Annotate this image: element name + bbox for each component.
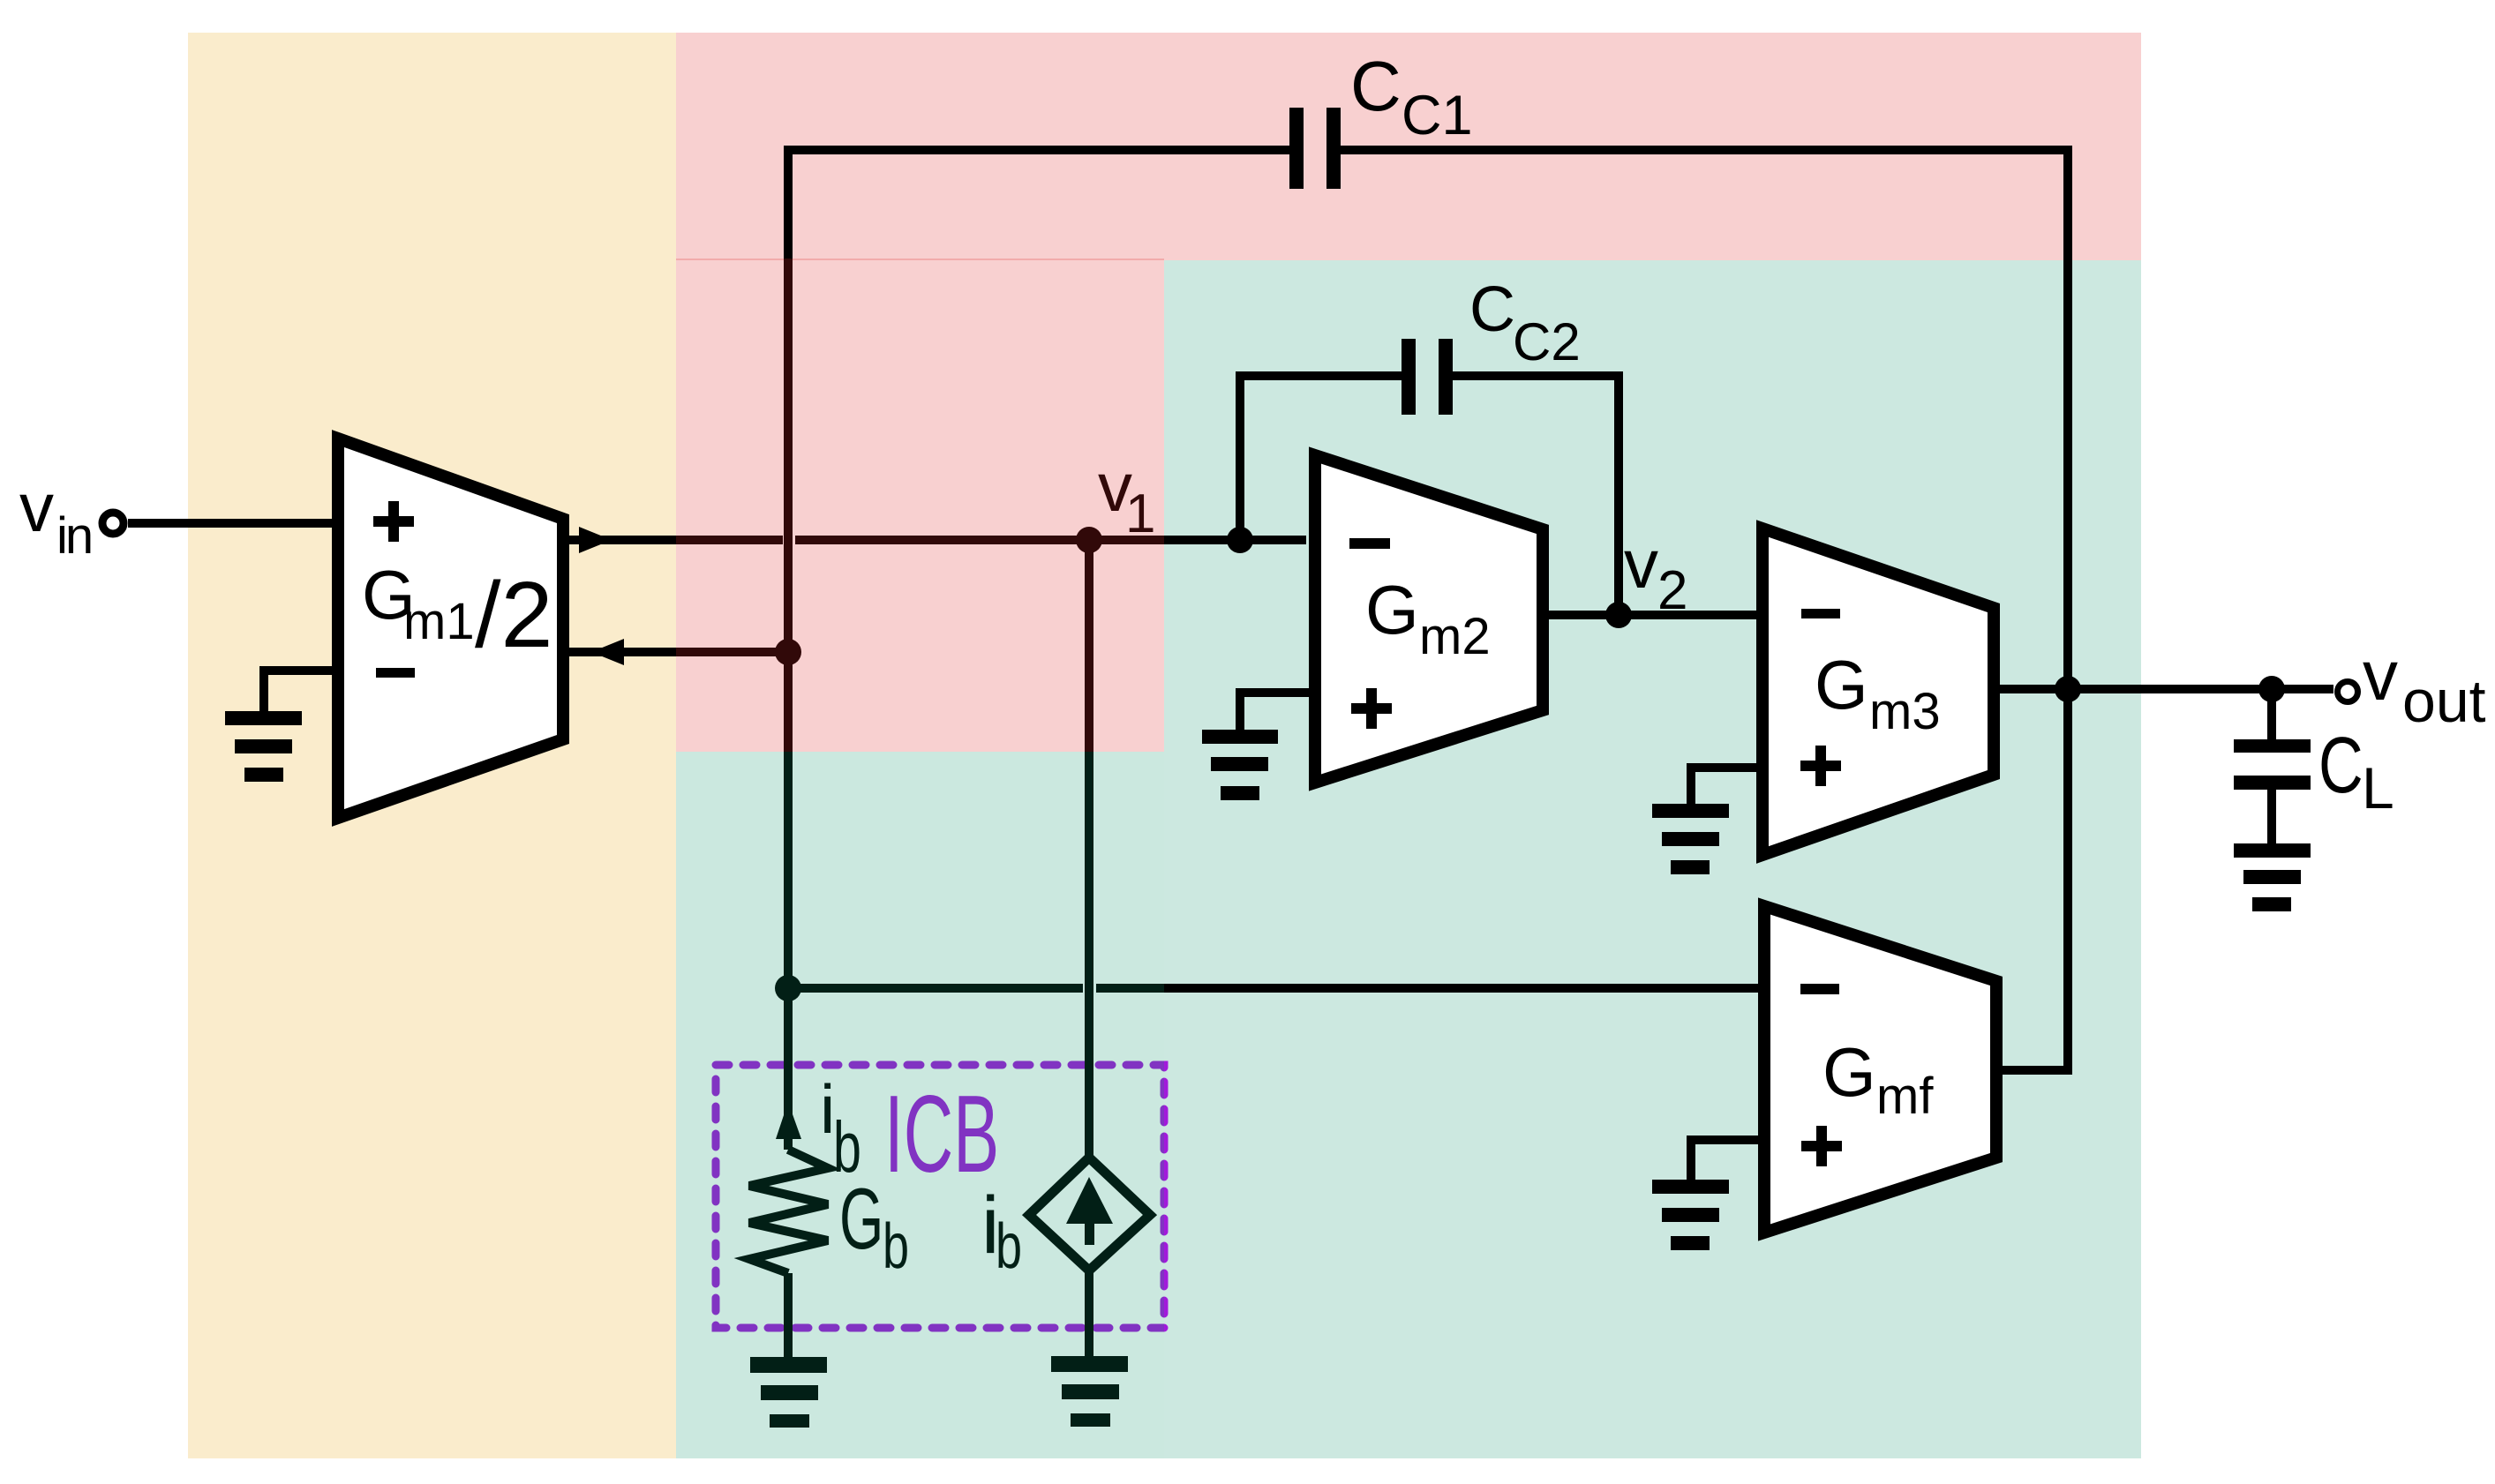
svg-text:m3: m3	[1869, 683, 1941, 740]
svg-text:C: C	[1469, 274, 1515, 345]
svg-text:C2: C2	[1513, 312, 1581, 371]
svg-text:v: v	[1624, 525, 1658, 603]
svg-text:v: v	[19, 468, 54, 546]
svg-text:C: C	[2318, 722, 2363, 810]
svg-text:out: out	[2402, 668, 2486, 735]
svg-text:G: G	[1815, 646, 1868, 723]
svg-text:mf: mf	[1876, 1068, 1934, 1125]
svg-text:m2: m2	[1419, 608, 1491, 665]
svg-text:in: in	[56, 507, 91, 565]
svg-text:G: G	[1365, 571, 1419, 648]
svg-text:2: 2	[1657, 560, 1687, 621]
svg-text:G: G	[1822, 1033, 1876, 1111]
svg-text:m1: m1	[403, 593, 475, 650]
svg-text:C1: C1	[1402, 85, 1473, 146]
svg-text:L: L	[2362, 755, 2394, 821]
svg-text:/2: /2	[475, 563, 552, 667]
svg-text:C: C	[1350, 47, 1402, 125]
svg-text:v: v	[2363, 636, 2398, 715]
